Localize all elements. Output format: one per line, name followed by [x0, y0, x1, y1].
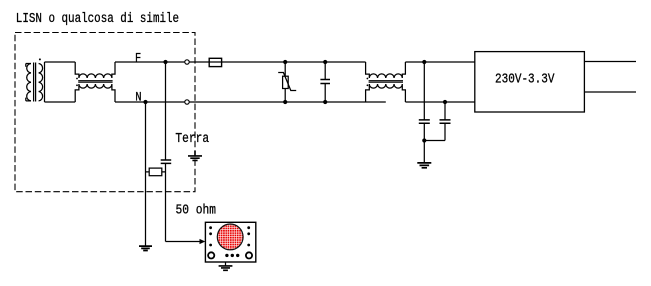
- ground symbol G1: [417, 163, 431, 168]
- analyzer small dot 2: [231, 254, 234, 257]
- wire N line from choke L1 past choke L2 lead (stub): [115, 101, 386, 103]
- wire joining Y caps: [424, 140, 445, 142]
- analyzer knob ring right: [246, 252, 252, 258]
- transformer T1 secondary lead: [44, 62, 46, 102]
- transformer T1 core: [34, 63, 36, 102]
- PSU output wire +: [584, 61, 636, 63]
- resistor R1 body: [149, 168, 162, 176]
- tap wire down from F node with coupling capacitor C4: [165, 62, 167, 242]
- analyzer knob dot left 3: [209, 244, 212, 247]
- varistor junction dot top: [283, 60, 287, 64]
- analyzer knob dot left 2: [209, 232, 212, 235]
- wire F line from choke L1 to choke L2: [115, 61, 366, 63]
- transformer T1 primary input stub top: [26, 64, 31, 67]
- wire to analyzer: [166, 241, 200, 243]
- analyzer knob dot left 1: [209, 226, 212, 229]
- varistor RV1 leads: [284, 62, 286, 102]
- fuse F1: [209, 58, 221, 66]
- common-mode choke L2 core: [369, 81, 403, 83]
- LISN dashed enclosure: [15, 33, 195, 192]
- transformer T1 phase dot: [39, 58, 41, 60]
- analyzer knob dot right 2: [247, 232, 250, 235]
- terminal circle N: [185, 100, 189, 104]
- choke L2 phase dot top: [367, 78, 369, 80]
- spectrum analyzer body: [205, 222, 255, 262]
- analyzer knob dot right 1: [247, 226, 250, 229]
- varistor RV1 body: [283, 76, 289, 88]
- analyzer small dot 1: [225, 254, 228, 257]
- analyzer knob ring left: [208, 252, 214, 258]
- wire F line choke L2 to PSU: [405, 61, 474, 63]
- wire to ground: [423, 141, 425, 163]
- wire secondary bottom to choke L1: [45, 101, 76, 103]
- junction node Y-cap N: [443, 100, 447, 104]
- resistor R1 leads: [146, 171, 166, 173]
- analyzer CRT ring: [217, 224, 243, 250]
- junction node on F (tap): [163, 60, 167, 64]
- common-mode choke L1 bottom winding: [75, 84, 115, 102]
- C1 junction dot top: [323, 60, 327, 64]
- X capacitor C1: [324, 62, 326, 102]
- analyzer ground stub: [225, 262, 227, 266]
- arrow into analyzer: [200, 239, 206, 244]
- common-mode choke L2 top winding: [366, 62, 406, 78]
- svg-text:F: F: [135, 50, 141, 65]
- svg-text:Terra: Terra: [175, 132, 209, 147]
- svg-text:N: N: [135, 89, 141, 104]
- junction node Y-cap ground: [422, 138, 426, 142]
- ground symbol G2: [139, 246, 152, 250]
- common-mode choke L1 core: [78, 81, 112, 83]
- svg-text:230V-3.3V: 230V-3.3V: [495, 73, 555, 88]
- earth ground on enclosure edge: [188, 151, 202, 160]
- transformer T1 secondary winding: [39, 64, 43, 101]
- svg-text:50 ohm: 50 ohm: [176, 203, 217, 218]
- transformer T1 primary input stub bottom: [26, 98, 31, 101]
- C1 junction dot bottom: [323, 100, 327, 104]
- choke L2 phase dot bottom: [367, 84, 369, 86]
- common-mode choke L2 bottom winding: [366, 84, 406, 102]
- Y capacitor C2: [423, 62, 425, 141]
- choke L1 phase dot top: [76, 78, 78, 80]
- choke L1 phase dot bottom: [76, 84, 78, 86]
- wire N line choke L2 to PSU: [405, 101, 474, 103]
- varistor junction dot bottom: [283, 100, 287, 104]
- analyzer CRT screen: [217, 224, 243, 250]
- junction node on N (earth): [143, 100, 147, 104]
- analyzer small dot 3: [236, 254, 239, 257]
- svg-text:LISN o qualcosa di simile: LISN o qualcosa di simile: [16, 12, 179, 27]
- earth wire from N node: [145, 102, 147, 246]
- wire secondary top to choke L1: [45, 61, 76, 63]
- varistor RV1 strike: [278, 73, 296, 91]
- junction node Y-cap F: [422, 60, 426, 64]
- PSU output wire -: [584, 91, 636, 93]
- terminal circle F: [185, 60, 189, 64]
- transformer T1 primary winding: [27, 64, 31, 101]
- Y capacitor C3: [444, 102, 446, 141]
- analyzer knob dot right 3: [247, 244, 250, 247]
- PSU box 230V-3.3V: [475, 52, 585, 112]
- common-mode choke L1 top winding: [75, 62, 115, 78]
- ground symbol G3: [219, 266, 233, 270]
